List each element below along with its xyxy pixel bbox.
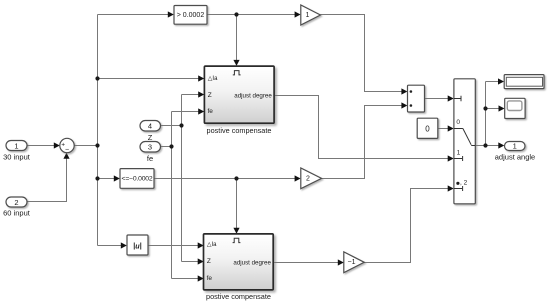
- svg-text:1: 1: [14, 142, 18, 151]
- scope block: [505, 98, 525, 118]
- arrowhead into abs: [121, 242, 127, 248]
- wire trunk to abs: [98, 245, 123, 247]
- arrowhead into product in2: [401, 102, 407, 108]
- arrowhead into compare: [168, 11, 174, 17]
- wire gain1 to product in1: [320, 15, 402, 92]
- inport 1 "30 input": [3, 141, 31, 162]
- wire gain2 to product in2: [322, 106, 403, 179]
- junction dot outport branch: [483, 143, 487, 147]
- svg-text:adjust degree: adjust degree: [233, 259, 271, 266]
- wire sum output to trunk: [74, 145, 98, 147]
- svg-text:|u|: |u|: [133, 241, 141, 250]
- outport 1 "adjust angle": [495, 142, 535, 162]
- arrowhead into sum bottom: [63, 153, 69, 159]
- compare block <= -0.0002: [120, 169, 154, 189]
- svg-text:> 0.0002: > 0.0002: [177, 12, 205, 19]
- svg-text:Z: Z: [207, 258, 211, 265]
- svg-text:Z: Z: [148, 133, 153, 142]
- sum block: [60, 138, 74, 153]
- wire trunk to compare2: [98, 178, 116, 180]
- wire trunk vertical: [97, 15, 99, 246]
- wire product to switch control: [425, 98, 450, 100]
- arrowhead into Z bottom: [198, 258, 204, 264]
- wire gain-1 to switch input2: [364, 189, 449, 263]
- wire trigger bottom subsystem: [236, 179, 238, 230]
- arrowhead into switch input0: [448, 125, 454, 131]
- wire bottom subsystem out to gain-1: [274, 262, 340, 264]
- constant 0: [417, 118, 438, 138]
- arrowhead into switch input1: [448, 155, 454, 161]
- svg-text:1: 1: [457, 149, 461, 156]
- gain 1: [301, 5, 321, 25]
- svg-text:4: 4: [148, 122, 152, 131]
- svg-text:60 input: 60 input: [3, 209, 31, 218]
- arrowhead into dIa bottom: [198, 242, 204, 248]
- junction dot trunk sum: [95, 143, 99, 147]
- arrowhead into trigger top: [233, 60, 239, 66]
- wire compare2 to gain2: [154, 178, 296, 180]
- subsystem postive compensate (bottom): [204, 234, 274, 301]
- abs block |u|: [127, 235, 148, 255]
- arrowhead into display: [498, 78, 504, 84]
- arrowhead into Z top: [198, 91, 204, 97]
- svg-text:2: 2: [306, 175, 310, 182]
- svg-text:30 input: 30 input: [3, 152, 31, 161]
- junction dot scope branch: [483, 106, 487, 110]
- arrowhead into sum left: [54, 142, 60, 148]
- arrowhead into fe top: [198, 108, 204, 114]
- product block: [408, 85, 425, 112]
- wire branch up to display and scope: [486, 82, 501, 146]
- junction dot trunk compare2: [95, 176, 99, 180]
- arrowhead into dIa top: [198, 75, 204, 81]
- arrowhead into trigger bottom: [233, 228, 239, 234]
- wire port4 to Z inputs: [161, 95, 200, 262]
- junction dot compare2 out trigger: [234, 176, 238, 180]
- wire trigger top subsystem: [236, 15, 238, 62]
- wire abs to dIa bottom: [148, 245, 199, 247]
- svg-text:postive compensate: postive compensate: [206, 292, 271, 301]
- inport 4 "Z": [140, 121, 161, 143]
- multiport switch: [454, 79, 475, 204]
- svg-text:−: −: [65, 147, 69, 154]
- svg-text:, 2: , 2: [460, 180, 468, 187]
- arrowhead into gain2: [295, 175, 301, 181]
- svg-text:fe: fe: [147, 154, 153, 163]
- arrowhead into compare2: [114, 175, 120, 181]
- svg-text:1: 1: [306, 12, 310, 19]
- wire trunk to compare block: [98, 14, 170, 16]
- arrowhead into fe bottom: [198, 275, 204, 281]
- wire port1 to sum: [27, 145, 55, 147]
- wire port2 to sum bottom: [27, 155, 67, 202]
- svg-text:0: 0: [425, 124, 430, 133]
- svg-text:△Ia: △Ia: [208, 76, 218, 82]
- subsystem postive compensate (top): [204, 66, 274, 135]
- gain -1: [344, 252, 364, 273]
- wire compare to gain1: [207, 14, 296, 16]
- junction dot trunk dIa: [95, 76, 99, 80]
- arrowhead into switch input2: [448, 185, 454, 191]
- svg-text:fe: fe: [207, 275, 213, 282]
- arrowhead into outport: [498, 142, 504, 148]
- wire top subsystem out to switch input1: [275, 96, 450, 159]
- svg-text:0: 0: [456, 119, 460, 126]
- svg-text:△Ia: △Ia: [207, 242, 217, 248]
- svg-text:1: 1: [513, 142, 517, 151]
- svg-text:3: 3: [148, 143, 152, 152]
- wire switch out to outport: [475, 145, 499, 147]
- arrowhead into gain-1: [338, 259, 344, 265]
- junction dot compare out trigger: [234, 12, 238, 16]
- wire trunk to dIa top: [98, 78, 200, 80]
- junction dot port3: [169, 144, 173, 148]
- display block: [504, 75, 544, 89]
- junction dot port4: [179, 123, 183, 127]
- gain 2: [301, 168, 322, 189]
- wire port3 to fe inputs: [161, 112, 200, 279]
- svg-text:fe: fe: [208, 108, 214, 115]
- svg-text:−1: −1: [348, 259, 356, 266]
- arrowhead into gain1: [295, 11, 301, 17]
- svg-text:postive compensate: postive compensate: [207, 126, 272, 135]
- svg-text:2: 2: [14, 198, 18, 207]
- svg-text:Z: Z: [208, 92, 212, 99]
- inport 3 "fe": [140, 142, 161, 164]
- compare block > 0.0002: [174, 6, 207, 25]
- wire constant0 to switch input0: [438, 128, 449, 130]
- inport 2 "60 input": [3, 197, 31, 218]
- arrowhead into product in1: [401, 88, 407, 94]
- svg-text:<=−0.0002: <=−0.0002: [122, 176, 153, 183]
- arrowhead into switch control: [448, 95, 454, 101]
- svg-text:adjust degree: adjust degree: [234, 93, 272, 100]
- svg-text:adjust angle: adjust angle: [495, 152, 535, 161]
- arrowhead into scope: [499, 105, 505, 111]
